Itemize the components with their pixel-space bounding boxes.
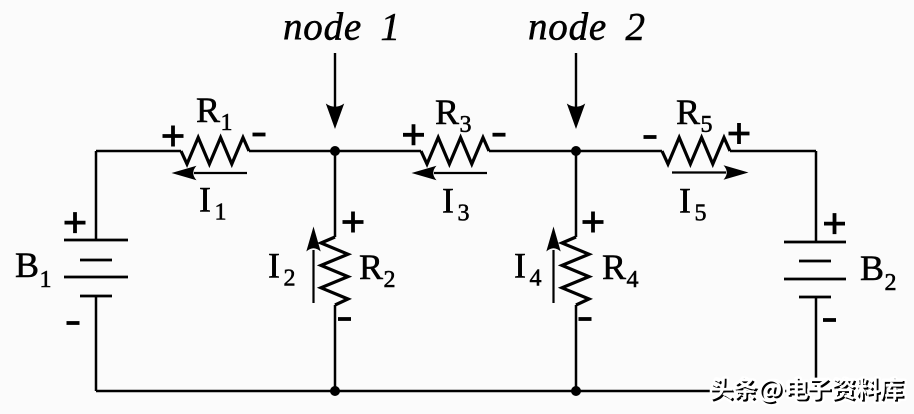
svg-text:5: 5	[695, 201, 707, 227]
wire top rail	[96, 150, 816, 153]
node 1 pointer arrow	[326, 53, 344, 129]
wire bottom rail	[96, 390, 816, 393]
svg-text:5: 5	[701, 112, 713, 138]
junction dot bottom left	[330, 386, 340, 396]
svg-text:node 1: node 1	[283, 6, 401, 49]
current arrow I3	[412, 166, 488, 227]
current arrow I1	[172, 166, 248, 226]
watermark 头条@电子资料库	[710, 377, 904, 404]
resistor R3	[403, 92, 506, 164]
svg-text:2: 2	[284, 266, 296, 292]
battery B2	[784, 213, 897, 320]
svg-text:I: I	[268, 246, 280, 286]
svg-text:R: R	[676, 92, 700, 132]
svg-text:I: I	[679, 181, 691, 221]
svg-text:2: 2	[885, 270, 897, 296]
svg-text:3: 3	[460, 112, 472, 138]
svg-text:R: R	[435, 92, 459, 132]
wire left branch	[95, 151, 98, 391]
resistor R4	[562, 212, 639, 320]
svg-text:3: 3	[458, 201, 470, 227]
node 2 pointer arrow	[567, 53, 585, 129]
svg-text:R: R	[359, 247, 383, 287]
resistor R2	[321, 212, 396, 320]
current arrow I4	[514, 227, 561, 304]
svg-text:I: I	[514, 246, 526, 286]
current arrow I2	[268, 227, 321, 304]
svg-text:node 2: node 2	[528, 6, 646, 49]
svg-text:B: B	[860, 248, 884, 288]
current arrow I5	[672, 165, 749, 226]
node 1 junction dot top	[330, 146, 340, 156]
svg-text:B: B	[15, 245, 39, 285]
wire right branch	[815, 151, 818, 391]
svg-text:R: R	[602, 247, 626, 287]
wire middle branch node2	[575, 151, 578, 391]
svg-text:I: I	[442, 181, 454, 221]
svg-text:R: R	[196, 90, 220, 130]
resistor R5	[644, 92, 750, 164]
svg-text:1: 1	[215, 200, 227, 226]
junction dot bottom right	[571, 386, 581, 396]
svg-text:4: 4	[530, 266, 542, 292]
svg-text:1: 1	[221, 110, 233, 136]
svg-text:1: 1	[40, 267, 52, 293]
wire middle branch node1	[334, 151, 337, 391]
resistor R1	[163, 90, 266, 164]
node 2 junction dot top	[571, 146, 581, 156]
svg-text:2: 2	[384, 267, 396, 293]
battery B1	[15, 212, 128, 323]
svg-text:4: 4	[627, 267, 639, 293]
svg-text:I: I	[199, 180, 211, 220]
